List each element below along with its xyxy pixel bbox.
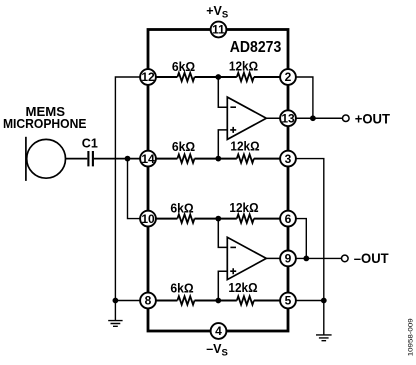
svg-text:10958-009: 10958-009 <box>407 318 414 356</box>
node I junction dot (right ground) <box>321 298 327 304</box>
node G junction dot (+OUT feedback) <box>310 115 316 121</box>
svg-text:2: 2 <box>285 70 292 84</box>
resistor 6k ohm (pin 10 to node C) <box>177 214 194 222</box>
svg-text:6kΩ: 6kΩ <box>172 59 195 74</box>
wire node E to pin 10 <box>128 159 140 219</box>
wire pin 9 to -OUT terminal <box>296 257 341 259</box>
wire node B to 12k (second row) <box>195 158 237 160</box>
wire node B to op-amp A1 non-inverting input <box>218 130 227 159</box>
wire node C to 12k (third row) <box>195 218 237 220</box>
-OUT terminal circle <box>342 255 349 262</box>
capacitor C1 <box>88 151 93 166</box>
svg-text:+VS: +VS <box>206 4 228 21</box>
wire pin 6 feedback to -OUT node <box>296 219 306 259</box>
svg-text:12kΩ: 12kΩ <box>228 280 257 295</box>
resistor 12k ohm (node B to pin 3) <box>237 154 254 162</box>
pin 2 circle <box>280 69 296 85</box>
svg-text:6kΩ: 6kΩ <box>170 281 193 296</box>
pin 6 circle <box>280 211 296 227</box>
wire pin 10 row (third input row) <box>156 218 177 220</box>
svg-text:MICROPHONE: MICROPHONE <box>3 116 87 131</box>
svg-text:11: 11 <box>212 23 225 37</box>
+OUT terminal circle <box>343 115 350 122</box>
resistor 6k ohm (pin 14 to node B) <box>177 154 194 162</box>
ground symbol (left) <box>108 301 122 327</box>
svg-text:–OUT: –OUT <box>354 251 390 266</box>
pin 8 circle <box>140 293 156 309</box>
svg-text:AD8273: AD8273 <box>230 39 282 56</box>
wire pin 12 row (top input row) <box>156 76 177 78</box>
wire C1 to input node E <box>94 158 140 160</box>
wire microphone to C1 <box>66 158 88 160</box>
pin 14 circle <box>140 151 156 167</box>
wire node C to op-amp A2 inverting input <box>218 219 227 248</box>
wire 12k to pin 6 <box>254 218 280 220</box>
pin 11 circle <box>211 22 227 38</box>
pin 3 circle <box>280 151 296 167</box>
wire pin 12 to ground rail (left) <box>115 77 139 301</box>
wire node A to 12k (top row) <box>195 76 237 78</box>
op-amp A1 (top) triangle <box>227 97 266 139</box>
resistor 6k ohm (pin 12 to node A) <box>177 73 194 81</box>
wire pin 2 feedback to +OUT node <box>296 77 313 118</box>
svg-text:12kΩ: 12kΩ <box>230 139 259 154</box>
op-amp A2 (bottom) triangle <box>227 237 266 279</box>
wire pin 13 to +OUT terminal <box>296 117 342 119</box>
resistor 12k ohm (node D to pin 5) <box>237 296 254 304</box>
svg-text:12: 12 <box>141 70 155 84</box>
wire node D to 12k (bottom row) <box>195 300 237 302</box>
wire pin 14 row (second input row) <box>156 158 177 160</box>
wire op-amp A1 output to pin 13 <box>266 117 279 119</box>
ground symbol (right) <box>316 301 332 341</box>
svg-text:10: 10 <box>141 212 155 226</box>
svg-text:6: 6 <box>285 212 292 226</box>
pin 13 circle <box>280 110 296 126</box>
svg-text:8: 8 <box>145 294 152 308</box>
node E junction dot (mic input) <box>125 156 131 162</box>
svg-text:13: 13 <box>281 111 295 125</box>
op-amp A1 plus input symbol <box>230 127 236 133</box>
svg-text:4: 4 <box>215 324 222 338</box>
svg-text:+OUT: +OUT <box>355 112 391 127</box>
pin 5 circle <box>280 293 296 309</box>
wire pin 8 to ground rail (left) <box>115 300 139 302</box>
MEMS microphone body <box>27 139 66 178</box>
wire op-amp A2 output to pin 9 <box>266 257 279 259</box>
resistor 12k ohm (node C to pin 6) <box>237 214 254 222</box>
node B junction dot <box>215 156 221 162</box>
resistor 12k ohm (node A to pin 2) <box>237 73 254 81</box>
svg-text:6kΩ: 6kΩ <box>170 201 193 216</box>
wire pin 5 to right ground node <box>296 300 323 302</box>
svg-text:6kΩ: 6kΩ <box>172 139 195 154</box>
node C junction dot <box>215 216 221 222</box>
svg-text:5: 5 <box>285 294 292 308</box>
op-amp U1 AD8273 package outline <box>148 30 288 332</box>
op-amp A2 plus input symbol <box>230 268 236 274</box>
wire node A to op-amp A1 inverting input <box>218 77 227 107</box>
wire pin 8 row (bottom input row) <box>156 300 177 302</box>
svg-text:14: 14 <box>141 152 155 166</box>
pin 4 circle <box>211 323 227 339</box>
svg-text:12kΩ: 12kΩ <box>229 59 258 74</box>
pin 12 circle <box>140 69 156 85</box>
pin 10 circle <box>140 211 156 227</box>
op-amp A2 minus input symbol <box>230 246 236 248</box>
resistor 6k ohm (pin 8 to node D) <box>177 296 194 304</box>
svg-text:12kΩ: 12kΩ <box>229 200 258 215</box>
node H junction dot (-OUT feedback) <box>303 256 309 262</box>
node A junction dot <box>215 74 221 80</box>
svg-text:–VS: –VS <box>206 342 228 359</box>
wire 12k to pin 5 <box>254 300 280 302</box>
wire pin 3 to right ground rail <box>296 159 323 301</box>
node D junction dot <box>215 298 221 304</box>
node F junction dot (left ground) <box>113 298 119 304</box>
wire 12k to pin 3 <box>254 158 280 160</box>
svg-text:9: 9 <box>285 252 292 266</box>
MEMS microphone port line <box>25 137 27 181</box>
svg-text:3: 3 <box>285 152 292 166</box>
svg-text:C1: C1 <box>82 136 98 151</box>
wire 12k to pin 2 <box>254 76 280 78</box>
pin 9 circle <box>280 251 296 267</box>
wire node D to op-amp A2 non-inverting input <box>218 271 227 300</box>
op-amp A1 minus input symbol <box>230 106 236 108</box>
